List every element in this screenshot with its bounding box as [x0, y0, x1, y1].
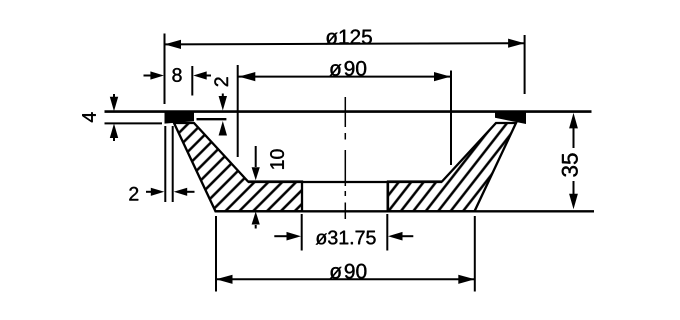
dimension 2 (rim recess depth) — [222, 94, 224, 136]
label 2 (rim recess) — [214, 77, 228, 86]
label ø125 — [326, 29, 372, 44]
label ø31.75 — [316, 231, 376, 245]
label 35 — [562, 153, 578, 176]
dimension &#248;90 bottom — [216, 216, 475, 292]
label ø90 (bottom) — [330, 264, 367, 279]
dimension &#248;90 top — [238, 65, 451, 165]
abrasive rim right (filled) — [495, 111, 526, 125]
dimension 10 (base thickness) — [255, 146, 257, 229]
center line (dash-dot axis) — [344, 97, 346, 219]
bottom edge line — [216, 210, 595, 212]
label 8 — [172, 68, 181, 82]
dimension 4 (rim thickness) — [105, 94, 163, 141]
bore right edge — [387, 182, 389, 211]
inner rim recess edge — [197, 118, 227, 120]
dimension 8 (rim width) — [144, 66, 212, 96]
top surface line — [105, 110, 592, 113]
dimension 2 (wall setback, lower left) — [146, 126, 195, 202]
dimension &#248;125 — [165, 34, 525, 105]
label 10 — [270, 149, 284, 168]
hatched right wall and base cross-section — [388, 123, 516, 211]
hatched left wall and base cross-section — [174, 123, 302, 211]
label ø90 (top) — [329, 61, 366, 76]
abrasive rim left (filled) — [165, 111, 195, 124]
dimension 35 (overall height) — [573, 127, 575, 195]
bore left edge — [301, 182, 303, 211]
dimension &#248;31.75 (bore) — [274, 214, 413, 251]
label 2 (wall setback) — [129, 187, 138, 201]
label 4 — [82, 112, 95, 122]
cup floor line — [248, 181, 442, 183]
